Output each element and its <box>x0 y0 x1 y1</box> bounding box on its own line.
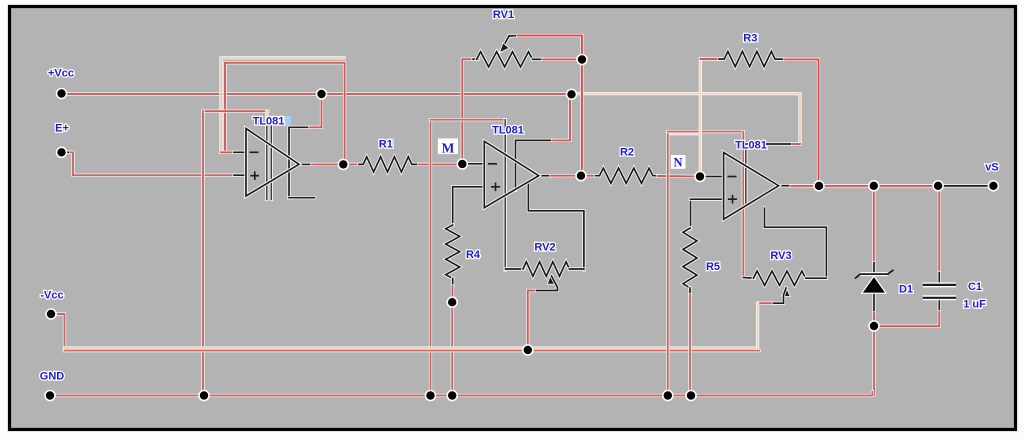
svg-text:R4: R4 <box>466 249 481 261</box>
node N junction <box>695 172 705 182</box>
resistor R4 <box>446 225 460 278</box>
wire U1 feedback pale segment <box>221 58 344 153</box>
wire pale under-ribbon y133 <box>668 132 701 135</box>
label R2 <box>620 147 634 159</box>
label R3 <box>743 33 757 45</box>
RV2 wiper arrowhead <box>547 275 556 285</box>
wire node M to U2 IN- <box>462 162 484 165</box>
wire U1 output to R1 <box>312 163 345 166</box>
svg-text:RV1: RV1 <box>493 9 514 21</box>
label vS <box>985 162 998 174</box>
node M junction <box>457 159 467 169</box>
wire R4 to junction <box>451 286 454 300</box>
svg-text:TL081: TL081 <box>735 140 767 152</box>
wire U2 output to junction <box>551 174 577 177</box>
resistor R2 <box>596 168 659 183</box>
wire RV3 left lead <box>743 276 754 280</box>
wire D1 junction to C1 <box>878 184 939 187</box>
wire U1 feedback red segment <box>225 63 345 163</box>
potentiometer RV3 body <box>753 271 805 285</box>
RV1 wiper arrowhead <box>500 43 510 53</box>
resistor R1 <box>359 157 419 172</box>
terminal E+ <box>57 147 67 157</box>
wire C1 top lead black <box>938 273 941 285</box>
potentiometer RV1 body <box>477 52 533 67</box>
wire RV2 wiper arm <box>534 276 558 291</box>
wire D1 top lead red <box>872 190 875 263</box>
svg-text:R5: R5 <box>706 261 720 273</box>
svg-text:-Vcc: -Vcc <box>40 290 63 302</box>
wire RV1 wiper to right terminal junction <box>518 36 582 56</box>
wire R3 left down to node N pale <box>699 59 702 172</box>
svg-text:TL081: TL081 <box>492 125 524 137</box>
op-amp U1 plus sign <box>251 171 260 180</box>
svg-text:TL081: TL081 <box>253 116 285 128</box>
op-amp U1 minus sign <box>250 151 259 153</box>
op-amp U2 triangle <box>484 141 538 207</box>
svg-text:M: M <box>442 141 455 156</box>
wire U3 IN+ to R5 <box>691 198 724 201</box>
wire -Vcc down <box>58 314 65 351</box>
terminal GND <box>45 391 55 401</box>
wire D1 bottom lead red <box>872 313 875 322</box>
junction U2 output <box>576 171 586 181</box>
terminal +Vcc <box>57 89 67 99</box>
label RV2 <box>534 242 555 254</box>
wire R5 bottom lead <box>688 288 691 296</box>
label C1 <box>968 281 982 293</box>
svg-text:1 uF: 1 uF <box>963 299 986 311</box>
wire to U1 inverting input <box>221 151 236 154</box>
wire R2 left lead red <box>586 174 597 177</box>
wire vertical x203 to GND row <box>201 111 204 395</box>
wire U1 V+ to +Vcc rail <box>310 97 322 127</box>
label node N <box>673 156 682 170</box>
junction U2 V+ on +Vcc rail <box>567 89 577 99</box>
wire U2 IN+ to R4 <box>453 187 485 225</box>
op-amp U3 minus sign <box>728 176 737 178</box>
label RV3 <box>770 250 791 262</box>
junction GND row x204 <box>199 391 209 401</box>
label RV1 <box>493 9 514 21</box>
op-amp U1 triangle <box>246 129 299 197</box>
svg-text:C1: C1 <box>968 281 982 293</box>
wire horizontal y131 to RV3 left <box>668 130 744 133</box>
label node M <box>442 141 455 156</box>
wire node N to U3 IN- <box>704 175 724 178</box>
wire U1 balance to GND net horizontal <box>203 110 268 113</box>
label U2 TL081 <box>492 125 524 137</box>
wire -Vcc stub <box>51 312 58 315</box>
wire RV2 wiper to -Vcc row <box>528 291 534 349</box>
wire RV3 wiper pale down to -Vcc row end <box>756 303 759 348</box>
label U1 TL081 <box>253 116 285 128</box>
wire U3 output to junction <box>791 184 820 187</box>
wire C1 junction to vS terminal <box>944 184 993 187</box>
resistor R5 <box>683 228 697 288</box>
wire U3 V- loop to RV3 right <box>765 208 827 278</box>
label R5 <box>706 261 720 273</box>
svg-text:R2: R2 <box>620 147 634 159</box>
junction U1 V+ on +Vcc rail <box>317 89 327 99</box>
wire behind U1 label <box>265 111 268 126</box>
label E+ <box>55 123 69 135</box>
wire C1 top lead red <box>938 190 941 273</box>
svg-text:E+: E+ <box>55 123 69 135</box>
wire -Vcc rail red <box>65 349 760 352</box>
wire U2 output stub <box>539 174 551 177</box>
wire U3 V+ red <box>793 142 800 145</box>
junction D1-C1 bottom <box>869 321 879 331</box>
U1 label highlight 2 <box>285 116 292 126</box>
wire RV1 left lead <box>473 58 478 61</box>
wire RV2 right lead <box>569 267 584 270</box>
node N label background <box>671 155 686 169</box>
wire RV3 right lead <box>806 277 827 280</box>
potentiometer RV2 body <box>523 262 569 276</box>
RV3 wiper arrowhead <box>782 287 791 297</box>
junction GND row x691 <box>686 391 696 401</box>
label +Vcc <box>48 68 74 80</box>
svg-text:R3: R3 <box>743 33 757 45</box>
wire node M to RV1 left terminal <box>462 59 474 160</box>
svg-text:D1: D1 <box>899 284 913 296</box>
junction U1 output <box>338 159 348 169</box>
diode D1 (zener) <box>855 270 894 293</box>
terminal vS <box>988 181 998 191</box>
wire -Vcc rail pale <box>65 347 758 350</box>
junction output row D1 <box>869 181 879 191</box>
wire R1 to node M <box>419 163 458 166</box>
wire R1 left lead red <box>343 163 360 166</box>
wire U2 V+ to +Vcc rail <box>553 97 570 140</box>
junction RV1 right/wiper <box>577 55 587 65</box>
R3 label highlight <box>752 33 760 43</box>
svg-text:GND: GND <box>40 371 65 383</box>
op-amp U3 triangle <box>724 153 779 220</box>
wire RV1 right to junction <box>543 58 577 61</box>
wire U1 V+ / V- pin line <box>289 127 310 197</box>
wire U2 V+ pin line <box>516 140 554 190</box>
wire U1 V- pin to end <box>289 196 315 199</box>
svg-text:RV2: RV2 <box>534 242 555 254</box>
wire U3 output stub <box>779 184 791 187</box>
wire U1 output stub <box>299 163 312 166</box>
label D1 <box>899 284 913 296</box>
wire U3 V+ pin <box>746 142 794 145</box>
wire C1 bottom lead black <box>938 298 941 310</box>
wire U2 V- loop to RV2 right <box>528 182 584 270</box>
wire +Vcc rail east pale segment down to U3 V+ <box>571 94 800 144</box>
wire R4 junction to GND row <box>451 302 454 395</box>
node M label background <box>438 138 458 154</box>
wire RV3 left vertical red <box>742 132 745 278</box>
junction RV2 wiper on -Vcc rail <box>523 345 533 355</box>
wire R5 top lead <box>689 199 692 229</box>
wire RV1 right lead <box>533 58 544 61</box>
wire RV3 wiper arm <box>771 288 786 303</box>
op-amp U3 plus sign <box>728 195 737 204</box>
svg-text:vS: vS <box>985 162 998 174</box>
wire R4 bottom lead <box>451 278 454 287</box>
op-amp U2 plus sign <box>491 183 500 192</box>
resistor R3 <box>719 51 785 66</box>
svg-text:N: N <box>673 156 682 170</box>
wire U1 balance pin 5 <box>270 126 273 200</box>
op-amp U2 minus sign <box>488 163 497 165</box>
label U3 TL081 <box>735 140 767 152</box>
wire GND row <box>50 392 872 396</box>
wire U1 IN- pin stub <box>234 151 246 154</box>
wire RV1 junction down to U2 output <box>580 60 583 176</box>
wire R3 left lead red <box>700 57 720 60</box>
wire +Vcc rail horizontal <box>62 92 576 95</box>
terminal -Vcc <box>46 309 56 319</box>
R1 label highlight <box>387 139 395 150</box>
svg-text:R1: R1 <box>379 139 393 151</box>
wire R2 to node N <box>658 174 697 178</box>
wire RV1 wiper arm <box>501 36 519 52</box>
junction GND row x668 <box>663 391 673 401</box>
wire U1 balance pin 1 <box>265 126 268 200</box>
wire U3 output to D1 <box>824 184 875 187</box>
svg-text:+Vcc: +Vcc <box>48 68 74 80</box>
wire U1 IN+ pin stub <box>234 174 246 177</box>
junction R4 bottom <box>447 297 457 307</box>
svg-text:RV3: RV3 <box>770 250 791 262</box>
wire RV3 wiper red <box>758 302 771 305</box>
wire horizontal y120 to U2 balance <box>431 118 506 121</box>
wire U3 V+ balance line <box>744 144 747 206</box>
wire R3 right down to U3 output <box>785 59 819 186</box>
junction U3 output <box>814 181 824 191</box>
wire R5 to GND row <box>688 295 691 396</box>
wire U2 balance pin to RV2 left <box>504 120 507 270</box>
wire vertical x430 to GND row <box>429 120 432 396</box>
capacitor C1 plates <box>923 285 956 298</box>
junction GND row x452 <box>447 391 457 401</box>
label GND <box>40 371 65 383</box>
wire E+ stub <box>62 151 72 154</box>
wire D1 bottom lead black <box>872 293 875 314</box>
wire RV2 left lead <box>506 267 525 270</box>
junction output row C1 <box>933 181 943 191</box>
wire D1 top lead black <box>872 263 875 275</box>
label C1 value <box>963 299 986 311</box>
wire D1 junction to GND row <box>872 326 875 395</box>
label R4 <box>466 249 481 261</box>
wire E+ to U1 noninverting input <box>71 152 236 175</box>
junction GND row x430 <box>426 391 436 401</box>
label -Vcc <box>40 290 63 302</box>
wire D1 junction to C1 bottom <box>874 309 939 326</box>
wire vertical x668 to GND row <box>666 132 669 396</box>
U1 label highlight <box>266 116 285 126</box>
label R1 <box>379 139 393 151</box>
